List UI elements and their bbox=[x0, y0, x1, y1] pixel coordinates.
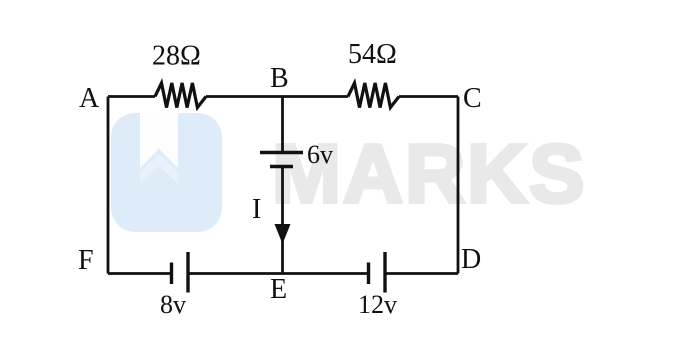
wire F to 8v battery bbox=[108, 272, 172, 275]
battery 8v long plate bbox=[186, 252, 189, 293]
svg-text:C: C bbox=[463, 83, 482, 114]
svg-text:8v: 8v bbox=[160, 290, 186, 319]
svg-text:28Ω: 28Ω bbox=[152, 41, 201, 72]
battery 8v short plate bbox=[170, 263, 173, 285]
wire left side A to F bbox=[107, 97, 110, 274]
svg-text:I: I bbox=[252, 194, 261, 225]
watermark logo chevron bbox=[140, 154, 178, 184]
current arrow I bbox=[275, 224, 291, 244]
watermark logo bookmark ribbon bbox=[140, 113, 178, 168]
battery 6v short plate bbox=[270, 165, 293, 168]
wire right side D to C bbox=[457, 97, 460, 274]
wire B down to 6v battery bbox=[281, 97, 284, 153]
svg-text:6v: 6v bbox=[307, 140, 333, 169]
battery 6v long plate bbox=[260, 151, 303, 154]
svg-text:A: A bbox=[79, 83, 100, 114]
svg-text:B: B bbox=[270, 63, 289, 94]
wire 8v battery to 12v battery through node E bbox=[188, 272, 369, 275]
resistor 28 ohm bbox=[155, 83, 206, 108]
svg-text:E: E bbox=[270, 274, 287, 305]
svg-text:12v: 12v bbox=[358, 290, 397, 319]
resistor 54 ohm bbox=[348, 83, 399, 108]
battery 12v long plate bbox=[383, 252, 386, 293]
svg-text:D: D bbox=[461, 244, 481, 275]
battery 12v short plate bbox=[367, 263, 370, 285]
wire C to 54-ohm resistor bbox=[399, 95, 458, 98]
watermark logo square bbox=[111, 113, 222, 232]
wire 28-ohm resistor to B bbox=[206, 95, 283, 98]
wire 12v battery to D bbox=[385, 272, 458, 275]
svg-text:F: F bbox=[78, 245, 94, 276]
wire A to 28-ohm resistor (top-left) bbox=[108, 95, 155, 98]
wire 6v battery down to node E bbox=[281, 167, 284, 274]
wire B to 54-ohm resistor bbox=[283, 95, 349, 98]
svg-text:54Ω: 54Ω bbox=[348, 39, 397, 70]
